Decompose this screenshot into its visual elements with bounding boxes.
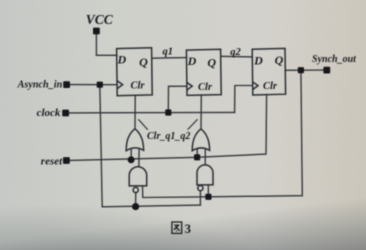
wire q2 net: FF2.Q to FF3.D: [221, 55, 252, 58]
flip-flop U1 body: [117, 48, 153, 96]
junction AND2 input / feedback line: [205, 194, 211, 200]
wire reset line to OR gates: [70, 157, 197, 160]
junction on Synch_out line: [298, 67, 304, 73]
wire AND2 plain input to feedback junction: [207, 185, 209, 197]
wire OR1 left input from reset junction: [130, 150, 132, 160]
wire Synch_out feedback line and riser: [208, 70, 302, 197]
wire clock riser to FF3 clock: [235, 86, 253, 113]
wire FF2 Clr to OR2 output: [200, 95, 202, 129]
wire Synch_out net: FF3.Q to output terminal: [285, 69, 326, 71]
wire OR2 left input from reset junction: [196, 150, 198, 158]
flip-flop U3 body: [252, 48, 285, 95]
and-gate G3: [129, 167, 147, 186]
wire OR2 right input from AND2 output: [204, 150, 206, 165]
or-gate G2: [192, 129, 209, 151]
wire VCC to FF1 D: [96, 31, 116, 55]
wire OR1 right input from AND1 output: [138, 150, 140, 166]
wire reset net to FF3 Clr: [197, 95, 267, 158]
wire bottom rail (Asynch_in net) to AND2 bubble: [102, 205, 200, 207]
junction OR1 input / reset: [128, 156, 135, 163]
wire Asynch_in vertical drop to bottom rail: [100, 85, 102, 207]
junction AND1 input / bottom rail: [132, 203, 139, 210]
or-gate G1: [126, 129, 143, 151]
wire AND1 plain input to Synch_out feedback line: [143, 186, 209, 198]
wire q1 net: FF1.Q to FF2.D: [152, 57, 187, 60]
wire Asynch_in to FF1 clock: [70, 84, 117, 86]
flip-flop U2 body: [186, 49, 221, 95]
terminal Asynch_in: [63, 81, 70, 88]
wire FF1 Clr to OR1 output: [134, 95, 136, 128]
caption figure mark 图: [172, 222, 182, 233]
junction on clock line: [165, 109, 171, 115]
clock wedge U2: [187, 82, 193, 90]
wire AND2 bubbled input to bottom rail: [199, 191, 201, 205]
junction on Asynch_in line: [97, 82, 103, 88]
leader line from Clr_q1_q2 label to FF1 Clr wire: [138, 119, 148, 130]
junction OR2 input / reset: [194, 154, 200, 160]
and-gate G4: [197, 165, 213, 185]
terminal reset: [63, 157, 70, 164]
wire AND1 bubbled input to bottom rail: [135, 193, 137, 207]
clock wedge U1: [117, 81, 123, 89]
clock wedge U3: [252, 82, 258, 90]
terminal Synch_out: [323, 67, 330, 74]
terminal VCC: [93, 28, 100, 35]
inverter bubble on G3 input: [133, 187, 138, 192]
terminal clock: [62, 110, 69, 117]
leader line from Clr_q1_q2 label to FF2 Clr wire: [188, 119, 198, 129]
wire clock line: [69, 111, 235, 114]
wire clock riser to FF2 clock: [168, 86, 186, 112]
inverter bubble on G4 input: [198, 186, 203, 191]
